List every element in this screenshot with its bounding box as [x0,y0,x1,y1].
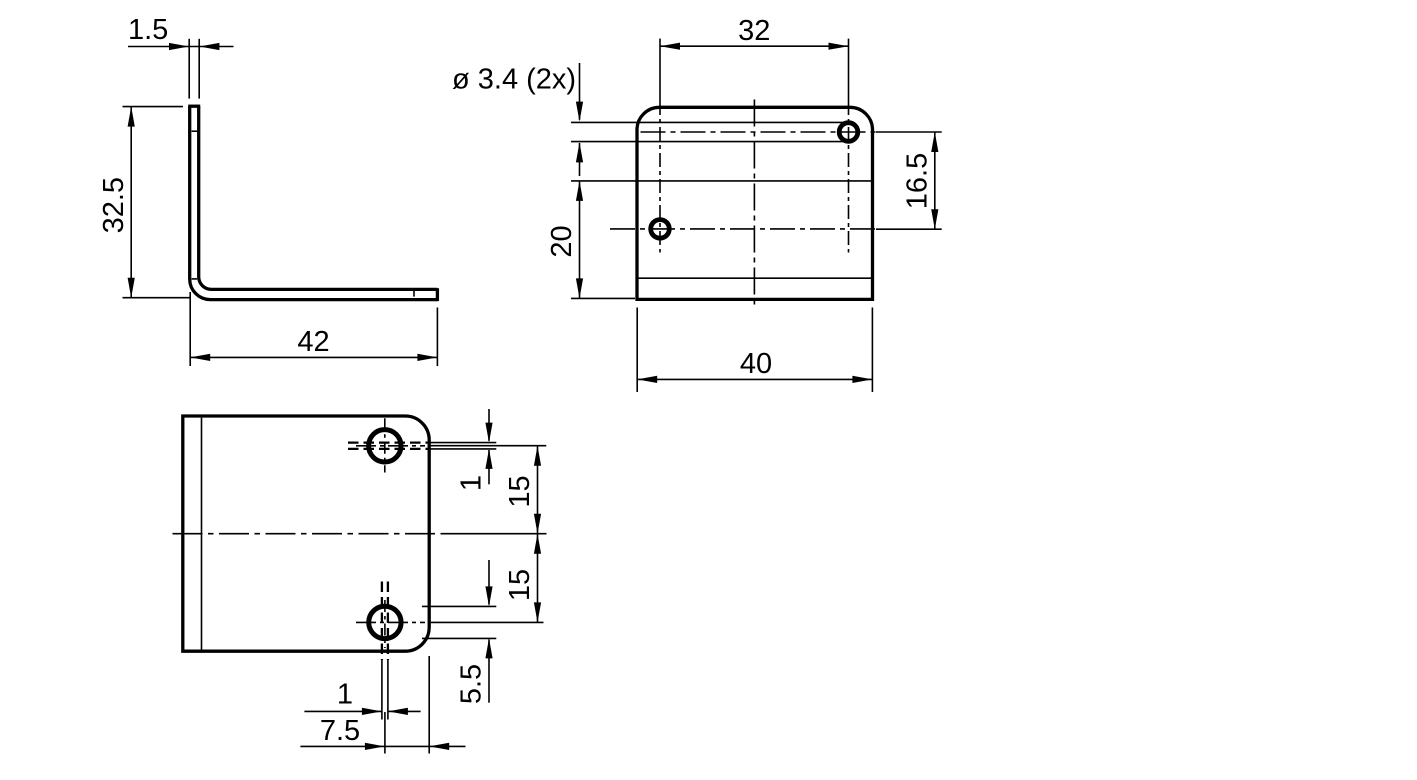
dimension 15 (upper) with arrows [504,446,541,534]
front view: horizontal centerline through left hole [610,228,877,230]
dimension 15 (lower) with arrows [504,534,541,623]
svg-text:16.5: 16.5 [901,153,933,209]
dimension 42 (bottom leg length) with arrows and extension lines [190,292,437,366]
bottom view: horizontal centerline [173,533,547,535]
side view: edge tick near right end of bottom leg [413,290,415,296]
dimension 1 (lower slot offset) with arrows [304,679,420,716]
side view: inner tick near top of leg [192,130,198,132]
svg-text:40: 40 [740,348,772,380]
front view: horizontal centerline through top hole [641,131,878,133]
svg-text:15: 15 [504,569,536,601]
svg-text:1: 1 [337,679,353,711]
svg-text:20: 20 [546,225,578,257]
dimension 32 (hole spacing) with arrows and extension lines [660,15,849,101]
front view: lower edge line (hole bottom tangent) [637,141,849,143]
front view: hole ø3.4 top right [839,123,858,142]
front view: bend line lower [637,277,872,279]
bottom view: bracket body outline with rounded right corners [183,416,429,651]
dimension 5.5 (hole diameter in view) with arrows [456,560,493,704]
front view: vertical centerline through top hole [848,101,850,253]
front view: vertical centerline through left hole [659,101,661,253]
bottom view: upper slot hole with hidden lines and centerlines [348,418,546,472]
svg-text:7.5: 7.5 [320,715,360,747]
svg-text:42: 42 [297,326,329,358]
side view: bend tangent tick inside leg [192,278,198,280]
front view: bend line upper [637,180,872,182]
front view: vertical centerline [753,100,755,307]
dimension ø3.4 (2x) hole diameter leader [452,63,637,176]
dimension 40 (width) with arrows and extension lines [637,308,872,393]
dimension 1.5 (sheet thickness) with arrows and extension lines [128,14,234,99]
bottom view: bend tangent line [201,418,203,650]
svg-text:1.5: 1.5 [128,14,168,46]
svg-text:5.5: 5.5 [456,664,488,704]
dimension 20 with arrows and extension lines [546,181,637,299]
side view: L-profile sheet cross-section outline [188,106,437,301]
dimension 32.5 (leg height) with arrows and extension lines [98,107,190,298]
bottom view: lower slot hole with hidden lines and centerlines [356,582,544,754]
svg-text:32.5: 32.5 [98,177,130,233]
front view: upper edge line (hole top tangent) [637,121,848,123]
front view: bracket body outline with rounded top corners [637,107,873,299]
svg-text:32: 32 [738,15,770,47]
svg-text:1: 1 [456,475,488,491]
svg-text:ø 3.4 (2x): ø 3.4 (2x) [452,64,576,96]
dimension 16.5 with arrows and extension lines [876,132,942,229]
svg-text:15: 15 [504,475,536,507]
dimension 1 (upper slot offset) with arrows [456,409,493,491]
dimension 7.5 with arrows and extension line [300,656,465,754]
front view: hole ø3.4 left [651,220,670,239]
